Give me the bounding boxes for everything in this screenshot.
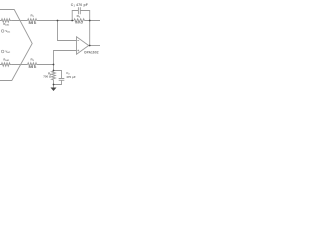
resistor R2 — [74, 19, 84, 22]
wire inverting branch — [58, 21, 77, 41]
DAC symbol — [0, 10, 32, 81]
capacitor C2 branch — [54, 71, 62, 79]
resistor RDAC top — [0, 19, 12, 22]
junction RC join — [53, 84, 55, 86]
resistor RDAC bottom — [0, 63, 12, 66]
wire to ground — [53, 85, 55, 88]
svg-text:R3: R3 — [31, 58, 35, 63]
junction node A — [57, 20, 59, 22]
resistor R3 — [28, 63, 37, 66]
svg-text:C1 470 pF: C1 470 pF — [71, 3, 88, 8]
wire noninverting branch — [54, 51, 77, 65]
svg-text:R2: R2 — [77, 14, 81, 19]
svg-text:OPA1602: OPA1602 — [84, 50, 99, 54]
junction RC split — [53, 70, 55, 72]
wire node down — [53, 65, 55, 72]
junction node B — [53, 64, 55, 66]
resistor R4 vertical — [52, 71, 56, 84]
resistor R1 — [28, 19, 37, 22]
C1 right wire — [80, 11, 89, 21]
svg-text:470 pF: 470 pF — [66, 75, 76, 79]
ground — [51, 88, 57, 92]
pin V_AC top — [1, 30, 4, 33]
junction cap branch top — [71, 20, 73, 22]
wire R1 to feedback node — [37, 20, 74, 22]
capacitor C2 — [59, 79, 65, 81]
svg-text:750 Ω: 750 Ω — [43, 75, 52, 79]
wire bottom to R3 — [12, 64, 28, 66]
op-amp plus sign — [77, 50, 79, 52]
svg-text:VAC: VAC — [5, 29, 10, 34]
capacitor C1 — [78, 7, 80, 14]
svg-text:499 Ω: 499 Ω — [28, 21, 37, 25]
wire R3 to node — [37, 64, 54, 66]
svg-text:499 Ω: 499 Ω — [28, 65, 37, 69]
wire top to R1 — [12, 20, 28, 22]
op-amp minus sign — [77, 40, 79, 42]
svg-text:RDAC: RDAC — [3, 58, 9, 63]
capacitor C1 branch left riser — [72, 11, 78, 21]
svg-text:R1: R1 — [31, 14, 35, 19]
output wire — [89, 45, 100, 47]
C2 bottom wire — [54, 80, 62, 84]
svg-text:RDAC: RDAC — [3, 22, 9, 27]
svg-text:VAC: VAC — [5, 50, 10, 55]
wire R2 to output riser — [84, 21, 100, 46]
op-amp U1 triangle — [77, 37, 89, 54]
junction cap right — [89, 20, 91, 22]
junction output — [89, 45, 91, 47]
svg-text:750 Ω: 750 Ω — [75, 21, 84, 25]
pin V_AC bottom — [1, 50, 4, 53]
